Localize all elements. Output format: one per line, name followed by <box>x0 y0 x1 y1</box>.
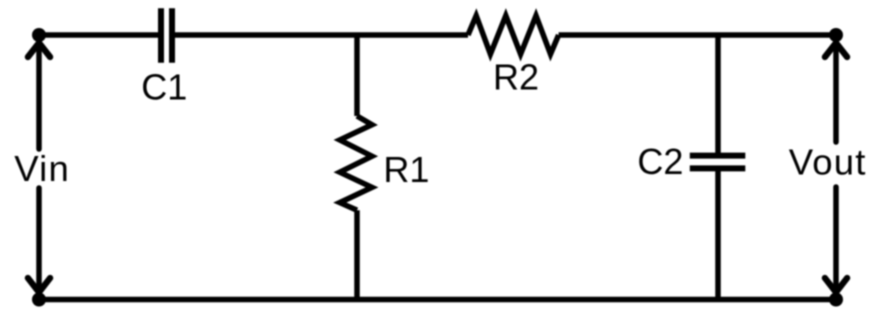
svg-text:Vin: Vin <box>14 148 70 189</box>
svg-text:C1: C1 <box>141 66 187 107</box>
svg-text:Vout: Vout <box>789 142 867 183</box>
svg-text:R2: R2 <box>493 57 539 98</box>
svg-text:C2: C2 <box>637 141 683 182</box>
svg-text:R1: R1 <box>383 149 429 190</box>
